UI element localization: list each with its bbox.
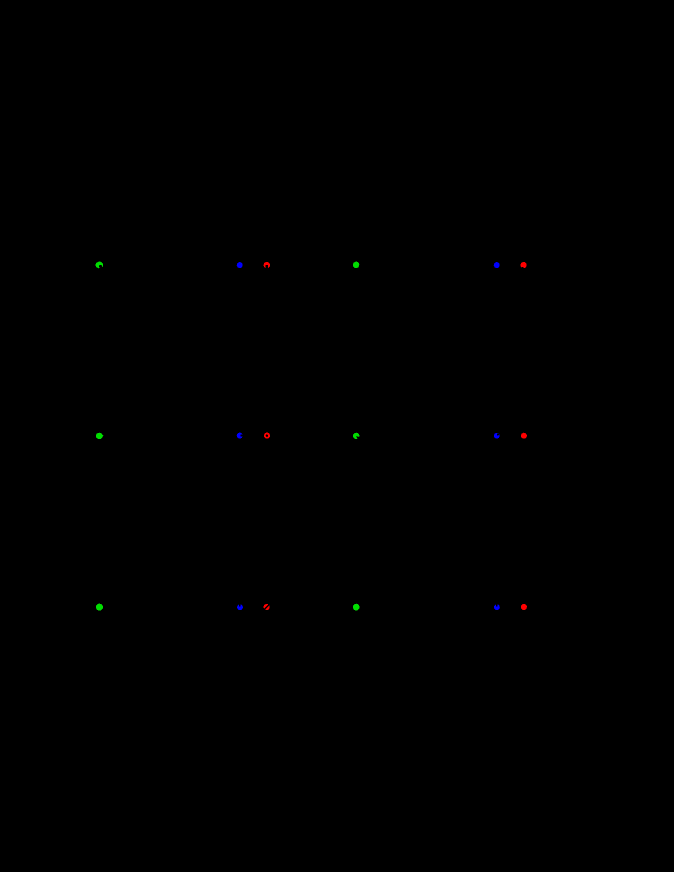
wire xyxy=(103,606,150,608)
wire xyxy=(558,490,560,507)
wire xyxy=(317,265,352,288)
wire xyxy=(558,661,560,678)
LED D1 green xyxy=(96,262,104,269)
wire xyxy=(443,435,493,437)
transistor Q3 xyxy=(291,472,309,490)
wire xyxy=(443,264,493,266)
wire xyxy=(360,264,407,266)
wire xyxy=(270,265,300,300)
battery V3 xyxy=(55,459,65,479)
resistor R4 xyxy=(407,430,443,442)
resistor R5 xyxy=(150,601,186,613)
wire xyxy=(60,436,95,459)
wire xyxy=(243,264,263,266)
wire xyxy=(527,265,557,300)
wire xyxy=(243,606,263,608)
wire xyxy=(301,661,303,678)
battery V4 xyxy=(312,459,322,479)
LED D14 blue xyxy=(237,604,243,610)
LED D17 blue xyxy=(494,604,500,610)
LED D5 blue xyxy=(494,262,500,268)
transistor Q1 xyxy=(291,301,309,319)
LED D6 red xyxy=(521,262,527,269)
ground xyxy=(551,336,567,342)
LED D8 blue xyxy=(237,433,244,439)
wire xyxy=(103,435,150,437)
wire xyxy=(500,606,520,608)
wire xyxy=(186,264,236,266)
wire xyxy=(317,436,352,459)
LED D16 green xyxy=(353,604,360,611)
battery V6 xyxy=(312,630,322,650)
LED D11 blue xyxy=(494,433,500,439)
wire xyxy=(186,435,236,437)
wire xyxy=(527,607,557,642)
LED D12 red xyxy=(521,433,527,439)
resistor R2 xyxy=(407,259,443,271)
battery V1 xyxy=(55,288,65,308)
resistor R1 xyxy=(150,259,186,271)
resistor R6 xyxy=(407,601,443,613)
LED D4 green xyxy=(353,262,359,269)
wire xyxy=(317,607,352,630)
wire xyxy=(60,607,95,630)
wire xyxy=(186,606,237,608)
wire xyxy=(500,435,520,437)
wire xyxy=(500,264,520,266)
ground xyxy=(551,678,567,684)
LED D18 red xyxy=(521,604,527,610)
transistor Q2 xyxy=(548,301,566,319)
wire xyxy=(443,606,494,608)
transistor Q4 xyxy=(548,472,566,490)
ground xyxy=(294,336,310,342)
wire xyxy=(301,490,303,507)
wire xyxy=(103,264,150,266)
ground xyxy=(551,507,567,513)
wire xyxy=(527,436,557,471)
LED D3 red xyxy=(264,262,270,269)
resistor R3 xyxy=(150,430,186,442)
ground xyxy=(294,678,310,684)
LED D10 green xyxy=(353,433,360,440)
wire xyxy=(243,435,263,437)
transistor Q6 xyxy=(548,643,566,661)
battery V5 xyxy=(55,630,65,650)
LED D15 red xyxy=(264,604,270,610)
wire xyxy=(360,606,407,608)
LED D13 green xyxy=(96,604,103,611)
ground xyxy=(294,507,310,513)
transistor Q5 xyxy=(291,643,309,661)
LED D2 blue xyxy=(237,262,243,268)
wire xyxy=(360,435,407,437)
wire xyxy=(301,319,303,336)
LED D7 green xyxy=(96,433,104,439)
wire xyxy=(60,265,95,288)
wire xyxy=(270,436,300,471)
LED D9 red xyxy=(264,433,270,439)
wire xyxy=(558,319,560,336)
wire xyxy=(270,607,300,642)
battery V2 xyxy=(312,288,322,308)
